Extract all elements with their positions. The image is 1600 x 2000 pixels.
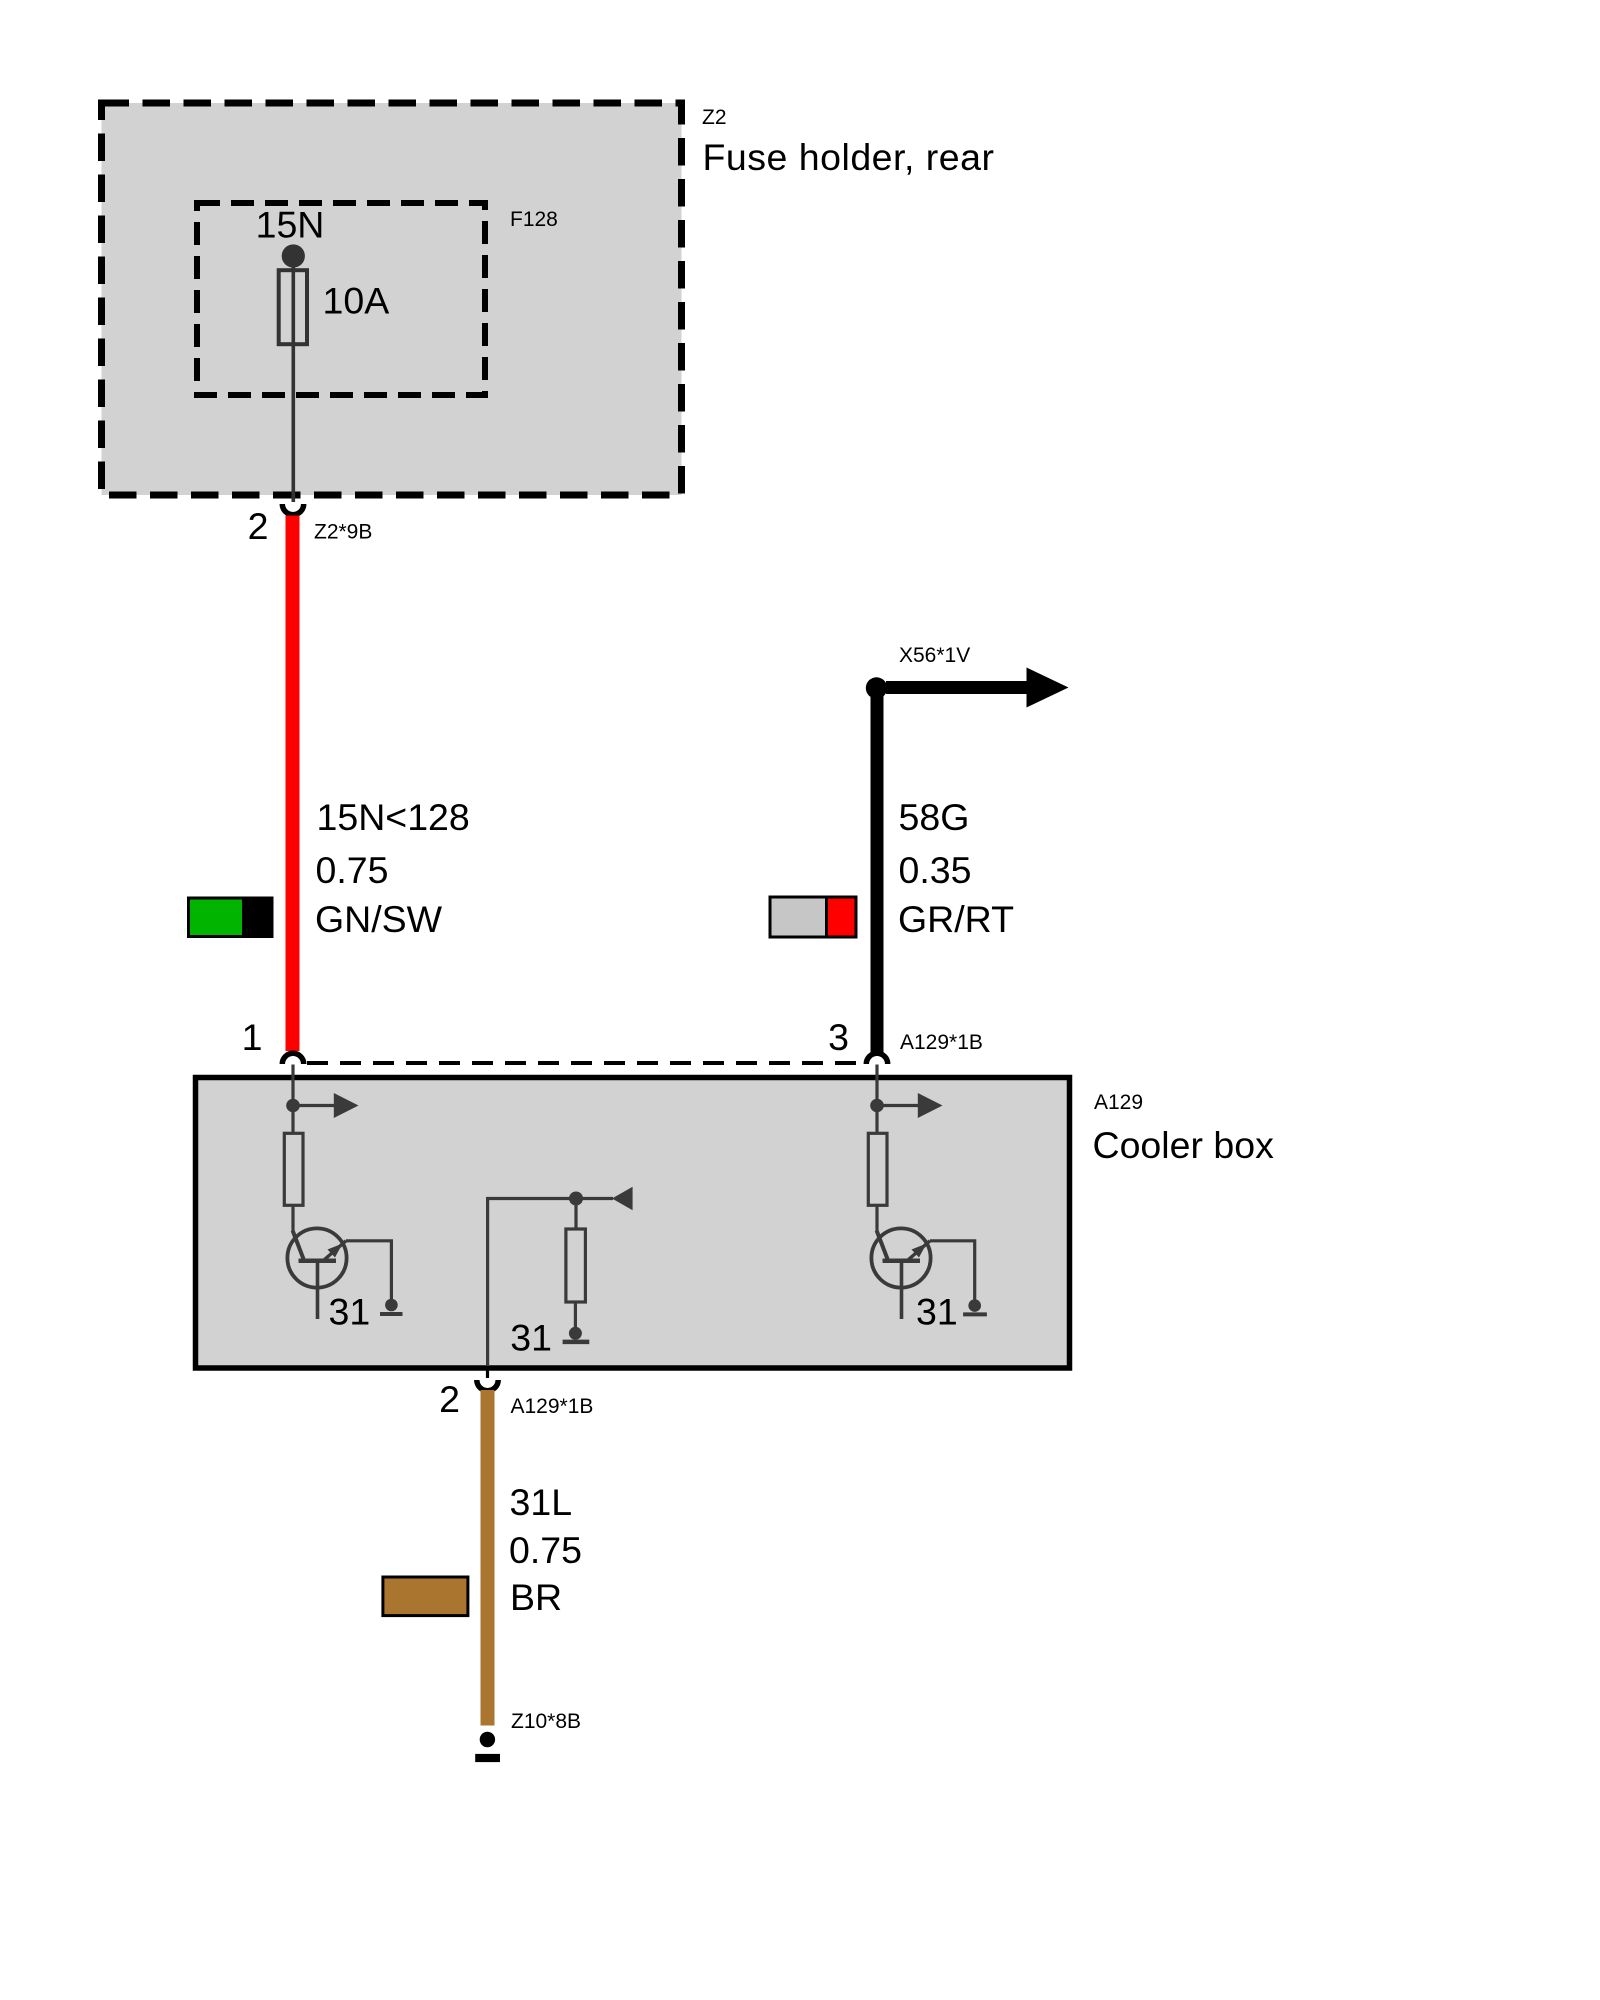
svg-text:31: 31 xyxy=(329,1291,371,1333)
svg-text:Fuse holder, rear: Fuse holder, rear xyxy=(703,136,995,178)
svg-text:15N: 15N xyxy=(256,204,325,246)
wire resistor to transistor right xyxy=(875,1205,878,1233)
transistor Q2 emitter diagonal with arrow xyxy=(909,1241,931,1260)
wire from 15N through fuse to pin 2 xyxy=(291,256,295,502)
junction dot left xyxy=(286,1099,300,1113)
svg-text:10A: 10A xyxy=(323,280,390,322)
svg-text:3: 3 xyxy=(828,1016,849,1058)
wire pin3 into box xyxy=(875,1065,878,1134)
arrow right from right junction xyxy=(877,1104,919,1107)
connector pin 1 arc xyxy=(282,1053,303,1064)
connector pin 2 arc Z2*9B xyxy=(282,504,303,515)
wire resistor to transistor left xyxy=(291,1205,294,1233)
fuse box F128 xyxy=(197,203,485,395)
wire pin2 vertical middle xyxy=(488,1199,613,1367)
svg-text:1: 1 xyxy=(242,1016,263,1058)
wire 58G black GR/RT xyxy=(871,693,884,1052)
resistor right xyxy=(868,1133,887,1205)
ground dot left xyxy=(385,1299,398,1312)
wire pin1 into box xyxy=(291,1065,294,1134)
transistor Q2 circle xyxy=(871,1228,930,1287)
svg-text:0.75: 0.75 xyxy=(316,849,389,891)
svg-text:Z2*9B: Z2*9B xyxy=(314,521,372,544)
junction dot right xyxy=(870,1099,884,1113)
svg-text:Z2: Z2 xyxy=(702,106,727,129)
svg-text:A129*1B: A129*1B xyxy=(511,1395,594,1418)
transistor Q1 emitter diagonal with arrow xyxy=(325,1241,347,1260)
node 15N dot xyxy=(282,244,305,267)
svg-text:BR: BR xyxy=(510,1576,562,1618)
svg-text:0.35: 0.35 xyxy=(899,849,972,891)
wire Q2 emitter to ground xyxy=(930,1241,975,1300)
svg-text:Cooler box: Cooler box xyxy=(1093,1124,1275,1166)
svg-text:F128: F128 xyxy=(510,208,558,231)
resistor left xyxy=(284,1133,303,1205)
wire junction to resistor middle xyxy=(574,1199,577,1230)
fuse F128 symbol xyxy=(279,270,307,344)
arrow right from left junction xyxy=(293,1104,335,1107)
connector pin 2 bottom arc A129*1B xyxy=(486,1369,489,1378)
transistor Q2 base bar xyxy=(883,1259,921,1264)
arrow to X56*1V xyxy=(886,681,1030,694)
ground dot right xyxy=(968,1299,981,1312)
svg-text:31: 31 xyxy=(510,1317,552,1359)
wire resistor middle to ground xyxy=(574,1302,577,1328)
ground bar right xyxy=(963,1312,987,1316)
svg-text:15N<128: 15N<128 xyxy=(317,796,470,838)
transistor Q1 circle xyxy=(287,1228,346,1287)
svg-text:X56*1V: X56*1V xyxy=(899,644,970,667)
wire 31L brown BR xyxy=(481,1390,495,1726)
colour code box BR xyxy=(383,1577,468,1616)
transistor Q1 base lead down xyxy=(316,1261,320,1319)
svg-text:2: 2 xyxy=(248,505,269,547)
transistor Q2 collector diagonal xyxy=(877,1231,888,1260)
ground Z10 bar xyxy=(475,1754,500,1762)
wire Q1 emitter to ground xyxy=(346,1241,391,1299)
colour code box GR/RT xyxy=(770,897,856,937)
wire 15N red GN/SW xyxy=(286,516,300,1052)
ground bar left xyxy=(380,1312,403,1316)
resistor middle xyxy=(566,1229,586,1302)
junction dot middle xyxy=(569,1192,583,1206)
svg-text:GR/RT: GR/RT xyxy=(898,898,1014,940)
ground Z10 dot xyxy=(480,1732,495,1747)
arrowhead pointing left middle xyxy=(612,1187,633,1211)
svg-text:0.75: 0.75 xyxy=(509,1529,582,1571)
colour code box GN/SW xyxy=(189,898,273,937)
ground dot middle xyxy=(569,1327,582,1340)
cooler box A129 xyxy=(196,1078,1070,1369)
transistor Q1 collector diagonal xyxy=(293,1231,304,1260)
svg-text:31: 31 xyxy=(916,1291,958,1333)
connector strip dashed line xyxy=(307,1061,863,1065)
connector pin 3 arc A129*1B xyxy=(866,1053,887,1064)
svg-text:GN/SW: GN/SW xyxy=(315,898,443,940)
svg-text:2: 2 xyxy=(439,1378,460,1420)
fuse holder box Z2 xyxy=(102,103,682,495)
transistor Q2 base lead down xyxy=(900,1261,904,1319)
svg-text:31L: 31L xyxy=(510,1481,573,1523)
transistor Q1 base bar xyxy=(299,1259,337,1264)
svg-text:58G: 58G xyxy=(899,796,970,838)
node X56 dot xyxy=(866,677,887,698)
svg-text:A129*1B: A129*1B xyxy=(900,1031,983,1054)
svg-text:A129: A129 xyxy=(1094,1091,1143,1114)
ground bar middle xyxy=(563,1340,590,1345)
svg-text:Z10*8B: Z10*8B xyxy=(511,1710,581,1733)
